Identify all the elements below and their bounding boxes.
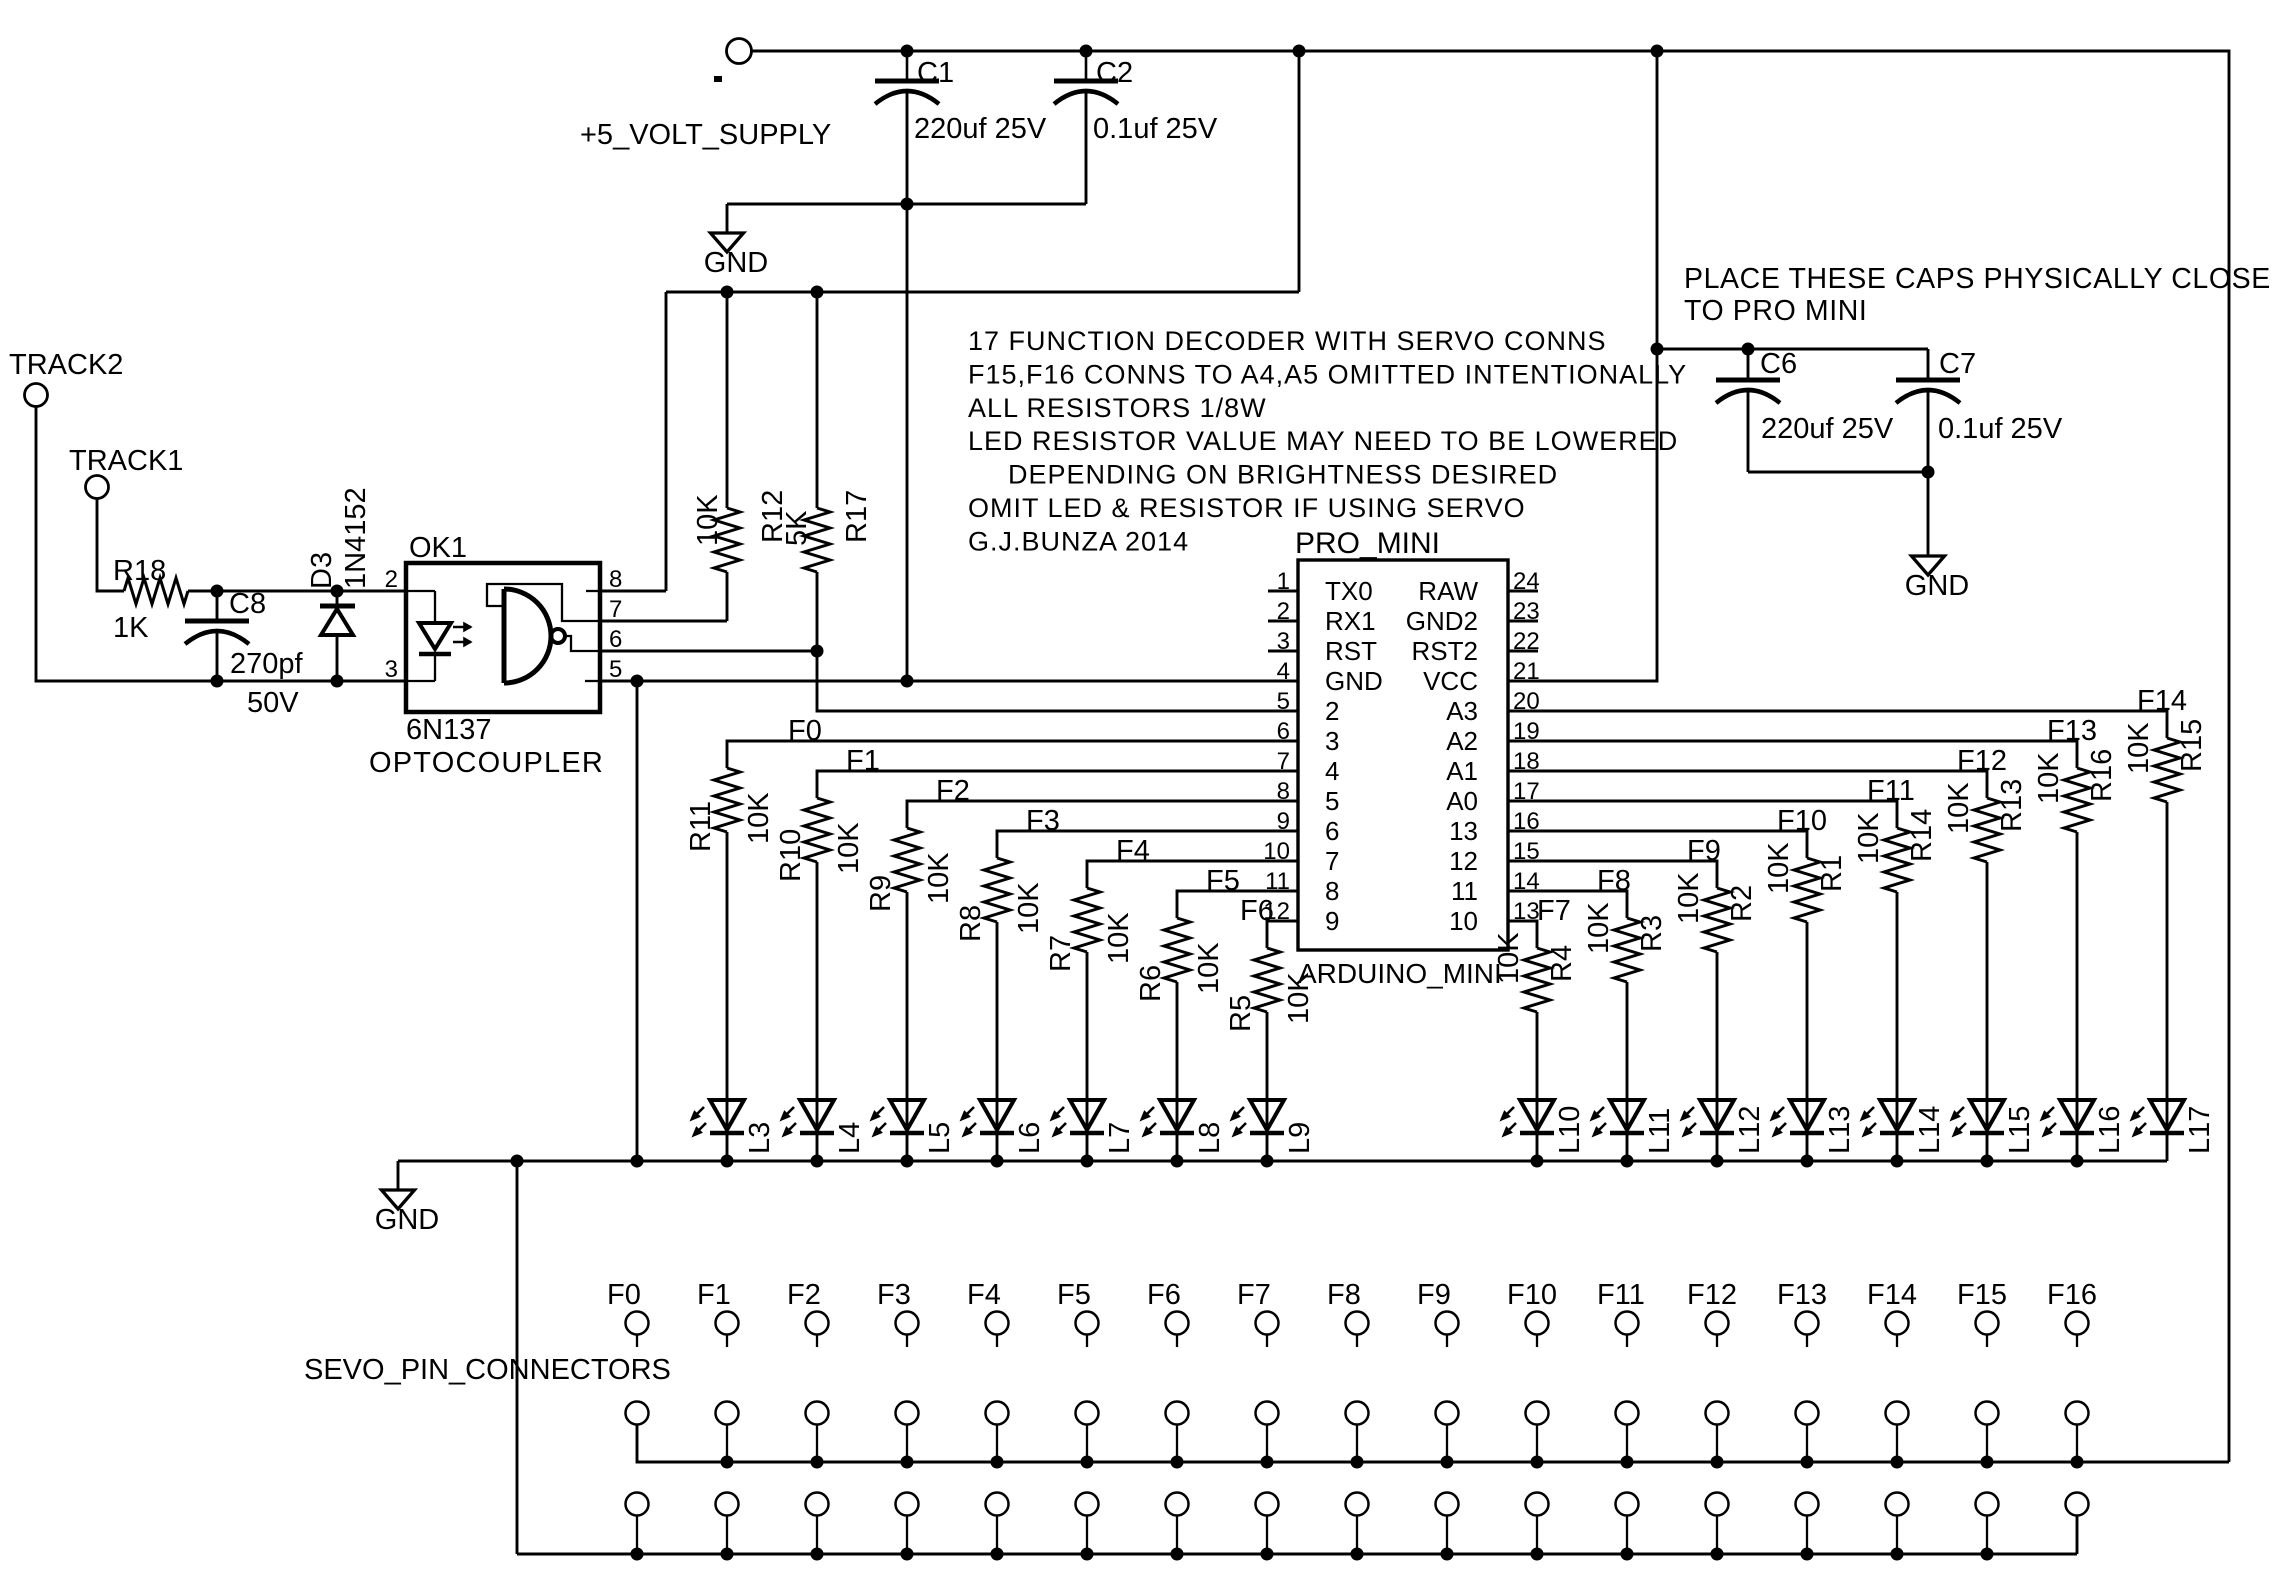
wire ground bus OK1 pin5 to PRO_MINI pin4 <box>600 680 1298 683</box>
wire net F8 <box>1508 891 1627 918</box>
svg-text:F9: F9 <box>1687 835 1721 867</box>
wire net F2 <box>907 801 1298 828</box>
svg-text:A2: A2 <box>1446 726 1478 756</box>
resistor R5 10K <box>1254 948 1280 1012</box>
svg-text:4: 4 <box>1325 756 1339 786</box>
svg-text:TX0: TX0 <box>1325 576 1373 606</box>
svg-text:LED RESISTOR VALUE MAY NEED TO: LED RESISTOR VALUE MAY NEED TO BE LOWERE… <box>968 426 1678 456</box>
svg-text:R10: R10 <box>775 829 807 882</box>
ground GND top <box>726 204 729 233</box>
svg-text:RX1: RX1 <box>1325 606 1376 636</box>
resistor R15 10K <box>2154 738 2180 802</box>
svg-text:C6: C6 <box>1760 348 1797 380</box>
diode D3 1N4152 <box>336 591 339 606</box>
svg-text:PRO_MINI: PRO_MINI <box>1295 527 1440 560</box>
resistor R16 10K <box>2064 768 2090 832</box>
svg-text:F5: F5 <box>1057 1279 1091 1311</box>
svg-text:RST2: RST2 <box>1412 636 1478 666</box>
+5V supply terminal <box>727 39 752 64</box>
node LED L11 cathode <box>1621 1155 1634 1168</box>
svg-text:10K: 10K <box>1193 942 1225 994</box>
svg-text:F10: F10 <box>1507 1279 1557 1311</box>
svg-text:10K: 10K <box>1013 882 1045 934</box>
svg-text:F1: F1 <box>846 745 880 777</box>
svg-text:GND2: GND2 <box>1406 606 1478 636</box>
node C6 top <box>1742 343 1755 356</box>
svg-text:R2: R2 <box>1726 885 1758 922</box>
wire TRACK2 net <box>36 406 406 681</box>
wire R18 to OK1 pin2 <box>188 590 406 593</box>
svg-text:R5: R5 <box>1225 995 1257 1032</box>
wire net F10 <box>1508 831 1807 858</box>
svg-text:5K: 5K <box>781 510 813 546</box>
node LED L14 cathode <box>1891 1155 1904 1168</box>
OK1 LED light arrows <box>453 626 471 629</box>
svg-text:D3: D3 <box>306 552 338 589</box>
svg-text:10K: 10K <box>1493 932 1525 984</box>
svg-text:13: 13 <box>1449 816 1478 846</box>
ground GND rail <box>397 1161 400 1190</box>
wire LED ground rail <box>398 1160 2167 1163</box>
svg-text:6: 6 <box>1325 816 1339 846</box>
svg-text:10: 10 <box>1449 906 1478 936</box>
svg-text:0.1uf 25V: 0.1uf 25V <box>1093 113 1218 145</box>
wire pullup rail <box>666 291 1299 294</box>
node gnd bus C1 <box>901 675 914 688</box>
svg-text:GND: GND <box>1325 666 1383 696</box>
wire net F7 <box>1508 921 1537 948</box>
svg-text:10K: 10K <box>743 792 775 844</box>
svg-text:1: 1 <box>1277 568 1290 595</box>
wire cap branch <box>1657 348 1928 351</box>
svg-text:10K: 10K <box>692 494 724 546</box>
node gnd bus drop <box>631 675 644 688</box>
svg-text:10K: 10K <box>833 822 865 874</box>
node LED L4 cathode <box>811 1155 824 1168</box>
wire net F3 <box>997 831 1298 858</box>
node LED L3 cathode <box>721 1155 734 1168</box>
svg-text:OK1: OK1 <box>409 532 467 564</box>
svg-text:L5: L5 <box>924 1122 956 1154</box>
svg-text:F10: F10 <box>1777 805 1827 837</box>
svg-text:L12: L12 <box>1734 1106 1766 1154</box>
resistor R10 10K <box>804 798 830 862</box>
OK1 output wiring <box>565 636 600 651</box>
svg-text:10K: 10K <box>1673 872 1705 924</box>
svg-text:L15: L15 <box>2004 1106 2036 1154</box>
svg-text:10K: 10K <box>1103 912 1135 964</box>
LED L5 <box>890 1100 924 1130</box>
svg-text:F8: F8 <box>1327 1279 1361 1311</box>
node LED L7 cathode <box>1081 1155 1094 1168</box>
resistor R3 10K <box>1614 918 1640 982</box>
node LED L9 cathode <box>1261 1155 1274 1168</box>
svg-text:OMIT LED & RESISTOR IF USING S: OMIT LED & RESISTOR IF USING SERVO <box>968 493 1526 523</box>
svg-text:F14: F14 <box>1867 1279 1917 1311</box>
svg-text:C1: C1 <box>917 57 954 89</box>
wire OK1 pin7 net <box>600 620 727 623</box>
node LED L16 cathode <box>2071 1155 2084 1168</box>
LED L10 <box>1520 1100 1554 1130</box>
svg-text:R15: R15 <box>2176 719 2208 772</box>
wire VCC net <box>1508 51 1657 681</box>
svg-text:8: 8 <box>1325 876 1339 906</box>
svg-text:F6: F6 <box>1147 1279 1181 1311</box>
svg-text:F16: F16 <box>2047 1279 2097 1311</box>
wire OK1 pin8 net <box>600 590 666 593</box>
node LED L13 cathode <box>1801 1155 1814 1168</box>
svg-text:10K: 10K <box>1853 812 1885 864</box>
svg-text:F0: F0 <box>788 715 822 747</box>
capacitor C7 <box>1927 349 1930 378</box>
svg-text:F11: F11 <box>1867 775 1915 807</box>
node rail opto drop <box>631 1155 644 1168</box>
svg-text:DEPENDING ON BRIGHTNESS DESIRE: DEPENDING ON BRIGHTNESS DESIRED <box>1008 460 1558 490</box>
wire rail to +5V riser <box>1298 51 1301 292</box>
svg-text:SEVO_PIN_CONNECTORS: SEVO_PIN_CONNECTORS <box>304 1354 671 1386</box>
node C8 top <box>211 585 224 598</box>
resistor R18 1K <box>124 578 188 604</box>
svg-text:F5: F5 <box>1206 865 1240 897</box>
LED L8 <box>1160 1100 1194 1130</box>
svg-text:10K: 10K <box>2123 722 2155 774</box>
svg-text:2: 2 <box>385 566 398 593</box>
OK1 pin5 inner stub <box>585 680 600 682</box>
LED L9 <box>1250 1100 1284 1130</box>
wire C1/C2 ground link <box>727 203 1086 206</box>
wire net F13 <box>1508 741 2077 768</box>
svg-text:F12: F12 <box>1957 745 2007 777</box>
capacitor C6 <box>1747 349 1750 378</box>
wire TRACK1 to R18 <box>97 498 124 591</box>
svg-text:17 FUNCTION DECODER WITH SERVO: 17 FUNCTION DECODER WITH SERVO CONNS <box>968 326 1607 356</box>
svg-text:L6: L6 <box>1014 1122 1046 1154</box>
svg-text:R18: R18 <box>113 555 166 587</box>
svg-text:C8: C8 <box>229 588 266 620</box>
svg-text:R17: R17 <box>841 490 873 543</box>
svg-text:24: 24 <box>1513 568 1540 595</box>
svg-text:ARDUINO_MINI: ARDUINO_MINI <box>1298 958 1502 989</box>
resistor R8 10K <box>984 858 1010 922</box>
OK1 enable wiring <box>487 584 600 621</box>
svg-text:8: 8 <box>609 566 622 593</box>
svg-text:A3: A3 <box>1446 696 1478 726</box>
capacitor C8 270pf <box>216 591 219 620</box>
node +5V rail junctions <box>901 45 914 58</box>
svg-text:GND: GND <box>375 1204 439 1236</box>
svg-text:L16: L16 <box>2094 1106 2126 1154</box>
svg-text:R1: R1 <box>1816 855 1848 892</box>
svg-text:21: 21 <box>1513 658 1540 685</box>
svg-text:3: 3 <box>385 656 398 683</box>
svg-text:F1: F1 <box>697 1279 731 1311</box>
svg-text:F11: F11 <box>1597 1279 1645 1311</box>
resistor R1 10K <box>1794 858 1820 922</box>
svg-text:1N4152: 1N4152 <box>340 487 372 589</box>
svg-text:RAW: RAW <box>1418 576 1478 606</box>
resistor R12 10K <box>726 292 729 508</box>
svg-text:F2: F2 <box>936 775 970 807</box>
svg-text:R11: R11 <box>685 801 717 852</box>
svg-text:F3: F3 <box>877 1279 911 1311</box>
node C1 bottom <box>901 198 914 211</box>
svg-text:9: 9 <box>1325 906 1339 936</box>
node OK1 pin6 / R17 <box>811 645 824 658</box>
svg-text:TO PRO MINI: TO PRO MINI <box>1684 295 1867 327</box>
node pullup rail junctions <box>721 286 734 299</box>
svg-text:F6: F6 <box>1240 895 1274 927</box>
node rail drop 517 <box>511 1155 524 1168</box>
LED L14 <box>1880 1100 1914 1130</box>
svg-text:10K: 10K <box>923 852 955 904</box>
LED L4 <box>800 1100 834 1130</box>
svg-text:R13: R13 <box>1996 779 2028 832</box>
resistor R13 10K <box>1974 798 2000 862</box>
LED L11 <box>1610 1100 1644 1130</box>
svg-text:5: 5 <box>609 656 622 683</box>
svg-text:ALL RESISTORS 1/8W: ALL RESISTORS 1/8W <box>968 393 1267 423</box>
LED L13 <box>1790 1100 1824 1130</box>
svg-text:10K: 10K <box>1763 842 1795 894</box>
svg-text:2: 2 <box>1325 696 1339 726</box>
svg-text:L17: L17 <box>2184 1106 2216 1154</box>
wire rail to servo gnd row <box>516 1161 519 1554</box>
node caps gnd <box>1922 466 1935 479</box>
wire opto output to PRO_MINI pin5 <box>817 651 1298 711</box>
svg-text:G.J.BUNZA 2014: G.J.BUNZA 2014 <box>968 526 1189 556</box>
svg-text:L4: L4 <box>834 1122 866 1154</box>
svg-text:C2: C2 <box>1096 57 1133 89</box>
svg-text:4: 4 <box>1277 658 1290 685</box>
svg-text:F15: F15 <box>1957 1279 2007 1311</box>
node D3 top <box>331 585 344 598</box>
svg-text:1K: 1K <box>113 612 149 644</box>
svg-text:L10: L10 <box>1554 1106 1586 1154</box>
svg-text:L8: L8 <box>1194 1122 1226 1154</box>
LED L7 <box>1070 1100 1104 1130</box>
svg-text:22: 22 <box>1513 628 1540 655</box>
svg-text:F13: F13 <box>2047 715 2097 747</box>
resistor R9 10K <box>894 828 920 892</box>
svg-text:270pf: 270pf <box>230 648 304 680</box>
wire OK1 pin8 riser <box>665 292 668 591</box>
resistor R17 5K <box>816 292 819 508</box>
svg-text:F4: F4 <box>1116 835 1150 867</box>
node LED L15 cathode <box>1981 1155 1994 1168</box>
node D3 bottom <box>331 675 344 688</box>
svg-text:TRACK1: TRACK1 <box>69 445 183 477</box>
LED L15 <box>1970 1100 2004 1130</box>
LED L17 <box>2150 1100 2184 1130</box>
svg-text:L11: L11 <box>1644 1108 1676 1154</box>
svg-text:F4: F4 <box>967 1279 1001 1311</box>
resistor R6 10K <box>1164 918 1190 982</box>
svg-text:R14: R14 <box>1906 809 1938 862</box>
svg-text:5: 5 <box>1277 688 1290 715</box>
svg-text:F2: F2 <box>787 1279 821 1311</box>
resistor R7 10K <box>1074 888 1100 952</box>
svg-text:3: 3 <box>1325 726 1339 756</box>
LED L6 <box>980 1100 1014 1130</box>
servo pin row3 gnd <box>517 1553 2077 1556</box>
svg-text:R3: R3 <box>1636 915 1668 952</box>
resistor R4 10K <box>1524 948 1550 1012</box>
svg-text:220uf 25V: 220uf 25V <box>1761 413 1894 445</box>
svg-text:R7: R7 <box>1045 935 1077 972</box>
svg-text:10K: 10K <box>1583 902 1615 954</box>
wire +5V top rail and right edge drop <box>750 51 2229 1462</box>
node LED L12 cathode <box>1711 1155 1724 1168</box>
svg-text:RST: RST <box>1325 636 1377 666</box>
svg-text:F8: F8 <box>1597 865 1631 897</box>
wire caps bottom link <box>1748 471 1928 474</box>
svg-text:F13: F13 <box>1777 1279 1827 1311</box>
svg-text:50V: 50V <box>247 687 299 719</box>
svg-text:F7: F7 <box>1537 895 1571 927</box>
servo pin row2 +5V <box>637 1425 2229 1462</box>
node VCC cap branch <box>1651 343 1664 356</box>
LED L12 <box>1700 1100 1734 1130</box>
resistor R11 10K <box>714 768 740 832</box>
optocoupler OK1 box <box>406 563 600 712</box>
wire net F6 <box>1267 921 1298 948</box>
svg-text:R16: R16 <box>2086 749 2118 802</box>
svg-text:F15,F16 CONNS TO A4,A5 OMITTED: F15,F16 CONNS TO A4,A5 OMITTED INTENTION… <box>968 359 1687 389</box>
OK1 pin8 inner stub <box>586 590 600 592</box>
svg-text:2: 2 <box>1277 598 1290 625</box>
LED L16 <box>2060 1100 2094 1130</box>
svg-text:F0: F0 <box>607 1279 641 1311</box>
svg-text:5: 5 <box>1325 786 1339 816</box>
svg-text:F14: F14 <box>2137 685 2187 717</box>
svg-text:220uf 25V: 220uf 25V <box>914 113 1047 145</box>
svg-text:6N137: 6N137 <box>406 714 491 746</box>
svg-text:A1: A1 <box>1446 756 1478 786</box>
svg-text:3: 3 <box>1277 628 1290 655</box>
svg-text:GND: GND <box>1905 570 1969 602</box>
svg-text:R9: R9 <box>865 875 897 912</box>
ground GND caps <box>1927 472 1930 556</box>
svg-text:6: 6 <box>609 626 622 653</box>
svg-text:GND: GND <box>704 247 768 279</box>
wire net F11 <box>1508 801 1897 828</box>
svg-text:+5_VOLT_SUPPLY: +5_VOLT_SUPPLY <box>580 119 831 151</box>
svg-text:23: 23 <box>1513 598 1540 625</box>
svg-text:7: 7 <box>609 596 622 623</box>
node LED L10 cathode <box>1531 1155 1544 1168</box>
svg-text:10K: 10K <box>2033 752 2065 804</box>
wire net F4 <box>1087 861 1298 888</box>
wire net F12 <box>1508 771 1987 798</box>
svg-text:A0: A0 <box>1446 786 1478 816</box>
svg-text:R6: R6 <box>1135 965 1167 1002</box>
svg-text:10K: 10K <box>1283 972 1315 1024</box>
svg-text:VCC: VCC <box>1423 666 1478 696</box>
svg-text:0.1uf 25V: 0.1uf 25V <box>1938 413 2063 445</box>
resistor R14 10K <box>1884 828 1910 892</box>
svg-text:7: 7 <box>1325 846 1339 876</box>
wire net F9 <box>1508 861 1717 888</box>
svg-text:PLACE THESE CAPS PHYSICALLY CL: PLACE THESE CAPS PHYSICALLY CLOSE <box>1684 263 2271 295</box>
svg-text:L7: L7 <box>1104 1122 1136 1154</box>
resistor R2 10K <box>1704 888 1730 952</box>
svg-text:F3: F3 <box>1026 805 1060 837</box>
wire net F14 <box>1508 711 2167 738</box>
wire net F0 <box>727 741 1298 768</box>
node LED L6 cathode <box>991 1155 1004 1168</box>
svg-text:F7: F7 <box>1237 1279 1271 1311</box>
node C8 bottom <box>211 675 224 688</box>
svg-text:F12: F12 <box>1687 1279 1737 1311</box>
node LED L8 cathode <box>1171 1155 1184 1168</box>
capacitor C2 <box>1085 51 1088 81</box>
LED L3 <box>710 1100 744 1130</box>
svg-text:R8: R8 <box>955 905 987 942</box>
node LED L5 cathode <box>901 1155 914 1168</box>
wire OK1 pin6 net <box>600 650 817 653</box>
ic PRO_MINI box <box>1298 560 1508 950</box>
svg-text:12: 12 <box>1449 846 1478 876</box>
svg-text:L3: L3 <box>744 1122 776 1154</box>
wire net F1 <box>817 771 1298 798</box>
svg-text:R4: R4 <box>1546 945 1578 982</box>
svg-text:F9: F9 <box>1417 1279 1451 1311</box>
PRO_MINI pin stubs <box>1268 590 1298 593</box>
OK1 NAND gate <box>502 589 507 683</box>
svg-text:L13: L13 <box>1824 1106 1856 1154</box>
wire net F5 <box>1177 891 1298 918</box>
svg-text:L9: L9 <box>1284 1122 1316 1154</box>
svg-text:11: 11 <box>1451 876 1478 906</box>
svg-text:TRACK2: TRACK2 <box>9 349 123 381</box>
OK1 internal LED <box>406 590 435 592</box>
capacitor C1 <box>906 51 909 81</box>
svg-text:C7: C7 <box>1939 348 1976 380</box>
svg-text:L14: L14 <box>1914 1106 1946 1154</box>
svg-text:10K: 10K <box>1943 782 1975 834</box>
svg-text:OPTOCOUPLER: OPTOCOUPLER <box>369 747 604 779</box>
wire gnd drop to LED rail <box>636 681 639 1161</box>
